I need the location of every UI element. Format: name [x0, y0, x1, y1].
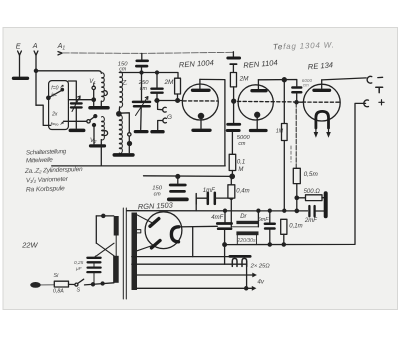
ground bar tube2 [251, 129, 267, 132]
wire mains to transformer [85, 283, 114, 285]
wire lower rail [52, 165, 226, 167]
choke Dr core bar [236, 221, 258, 224]
capacitors 0,25uF [87, 258, 100, 272]
resistor 0,5m [293, 168, 300, 183]
svg-text:1mF: 1mF [203, 188, 215, 194]
tube3 anode [314, 89, 330, 92]
svg-text:cm: cm [119, 66, 127, 72]
filament bus bar [230, 255, 250, 258]
svg-text:k=: k= [51, 93, 57, 99]
T symbol [376, 87, 383, 92]
wire top bus [119, 73, 178, 79]
coil V2 bottom wire [100, 140, 102, 166]
4V line lower [137, 287, 252, 289]
resistor 2M grid tube2 [230, 73, 236, 87]
variable capacitor C2 lead [141, 73, 143, 101]
resistor 2M grid leak tube1 [175, 78, 181, 94]
node A junction [34, 69, 37, 72]
rectifier anode 2 [137, 246, 152, 251]
wire block to varcap1 [68, 81, 76, 102]
svg-text:Mittelwelle: Mittelwelle [26, 157, 54, 165]
capacitor 6mF [269, 211, 271, 223]
svg-text:Si: Si [54, 273, 60, 279]
switch block [49, 81, 69, 130]
wire plus terminal down [225, 103, 366, 244]
ground bar coil [114, 153, 133, 157]
grid leak chain tube3 [295, 103, 297, 169]
capacitor 4mF [224, 211, 226, 223]
capacitor 5000cm [227, 124, 240, 130]
variable capacitor C2 [133, 102, 150, 106]
capacitor 150cm [136, 61, 147, 66]
filament shunt caps [232, 258, 237, 266]
4V line upper [137, 274, 252, 276]
svg-text:0,1m: 0,1m [289, 224, 302, 230]
svg-text:6mF: 6mF [258, 217, 269, 223]
svg-text:Ra Korbspule: Ra Korbspule [26, 185, 65, 193]
wire A to V1 coil [36, 71, 101, 73]
wire A elbow to switch [36, 105, 51, 125]
rectifier tube RGN1503 envelope [145, 212, 182, 249]
primary top feed [95, 216, 97, 243]
svg-text:f=0: f=0 [51, 86, 58, 92]
winding 220/30 [236, 231, 258, 235]
jack G upper [158, 101, 162, 110]
tube2 REN1104 envelope [238, 85, 273, 120]
tube2 anode [252, 89, 266, 92]
bias bar [324, 193, 328, 216]
svg-text:0,5m: 0,5m [304, 171, 319, 178]
svg-text:0,1: 0,1 [237, 159, 245, 165]
svg-text:4v: 4v [257, 279, 264, 286]
ground bar lower cap [169, 198, 187, 202]
capacitor 250cm lead [156, 73, 158, 88]
jack V1 [92, 86, 95, 89]
transformer core [123, 208, 126, 299]
svg-text:V₁/₂ Variometer: V₁/₂ Variometer [26, 176, 69, 184]
capacitor 1mF [208, 193, 215, 204]
svg-text:0,25: 0,25 [74, 260, 84, 266]
svg-text:A: A [32, 41, 38, 50]
secondary tap loop [137, 230, 141, 233]
tube1 REN1004 envelope [182, 84, 218, 120]
svg-text:Z.: Z. [121, 80, 128, 87]
variable capacitor C2 arrow [136, 97, 149, 116]
tap branch wire [119, 113, 129, 133]
resistor 0,1m [281, 219, 287, 234]
transformer secondary [132, 213, 138, 291]
ground bar jack G [152, 130, 163, 133]
svg-text:500.Ω: 500.Ω [304, 189, 321, 195]
svg-text:f=∞: f=∞ [51, 122, 59, 128]
ground bar tube1 [193, 129, 210, 132]
svg-text:Dr: Dr [240, 214, 247, 220]
coil Z2 [119, 115, 122, 154]
svg-text:2mF: 2mF [304, 218, 317, 224]
transformer primary [114, 216, 119, 236]
center tap wire [246, 264, 248, 288]
wire jack V1 to switch [69, 99, 93, 101]
filament arrows [315, 128, 317, 133]
rectifier cathode wire [178, 225, 218, 228]
switch lever [47, 96, 50, 99]
tube3 filament [316, 111, 329, 128]
svg-text:0,8A: 0,8A [53, 288, 64, 294]
resistor 500 ohm [297, 197, 306, 199]
ground E [14, 77, 28, 80]
svg-text:220/30s: 220/30s [236, 238, 256, 244]
svg-text:G: G [167, 114, 172, 121]
tube3 RE134 envelope [303, 84, 340, 121]
jack C of V1 [104, 91, 107, 96]
svg-text:2x: 2x [51, 112, 58, 118]
wire to jack V2 [64, 120, 87, 122]
svg-text:cm: cm [154, 192, 162, 198]
terminal A1 arrow [58, 52, 62, 55]
terminal E [18, 51, 22, 76]
capacitor 2mF [297, 210, 308, 212]
tube1 cathode [198, 113, 203, 118]
terminal plus [364, 100, 369, 107]
rectifier cathode arc [171, 227, 178, 242]
jack C of V2 [104, 131, 107, 136]
tube2 cathode [255, 112, 260, 117]
ground bar V2 [91, 144, 105, 147]
wire tube2 anode [258, 80, 296, 87]
jack V2 [87, 120, 90, 123]
coil V2 [102, 117, 105, 140]
capacitor 150cm lower lead [177, 176, 179, 183]
wire to minus terminal [322, 78, 367, 80]
capacitor 150cm lower [170, 185, 185, 191]
svg-text:V1: V1 [89, 79, 96, 85]
resistor 0,4m [228, 185, 235, 198]
svg-text:0,4m: 0,4m [236, 188, 249, 194]
capacitor 150cm top lead [141, 53, 143, 59]
wire varcap1 to ground [75, 109, 77, 129]
choke Dr winding wire [231, 226, 258, 228]
resistor 0,1M [229, 154, 236, 170]
capacitor 250cm [151, 89, 162, 93]
svg-text:4mF: 4mF [211, 215, 223, 221]
svg-text:2M: 2M [164, 79, 175, 86]
coil V1 bottom lead [100, 101, 102, 106]
B+ bus [127, 210, 297, 212]
svg-text:cm: cm [238, 141, 246, 147]
wire A1 coupling line [62, 52, 233, 53]
fuse Si 0,8A [54, 281, 68, 287]
terminal minus [367, 76, 372, 83]
coil V1 [102, 73, 105, 102]
wire plug to fuse [41, 284, 54, 286]
heater dash mark [290, 146, 292, 162]
variable capacitor C1 [71, 103, 82, 107]
svg-text:M: M [238, 167, 243, 173]
capacitor 150cm bottom lead [141, 67, 143, 72]
primary bottom feed [113, 256, 115, 283]
wire varcap2 to ground [140, 108, 143, 130]
variable capacitor C1 arrow [72, 96, 80, 112]
switch S [69, 283, 75, 285]
wire tube1 anode drop [200, 79, 225, 165]
capacitor 250cm bottom lead [156, 94, 158, 101]
ground bar V1 [90, 106, 108, 110]
mains plug [30, 282, 41, 288]
svg-text:E: E [16, 42, 21, 51]
svg-text:V2: V2 [90, 138, 97, 144]
coil Z [120, 72, 123, 107]
svg-text:22W: 22W [21, 240, 38, 249]
rectifier anode 1 [137, 215, 152, 223]
wire bias bus [144, 175, 233, 178]
resistor 1M anode load [282, 124, 288, 141]
svg-text:cm: cm [140, 86, 148, 92]
jack G lower [163, 118, 167, 123]
coil tap junction [117, 112, 121, 116]
chain A1 coupling cap [232, 52, 234, 56]
svg-text:2M: 2M [239, 76, 250, 83]
terminal A [34, 51, 38, 105]
mains switch bowtie [97, 243, 115, 256]
svg-text:1M: 1M [276, 128, 284, 134]
svg-text:2× 25Ω: 2× 25Ω [250, 264, 271, 270]
tap jack [128, 133, 131, 136]
grid wire tube1 [155, 100, 182, 102]
pencil handwriting block [24, 148, 83, 194]
ground bar under varcap1 [70, 129, 83, 133]
heater winding line [132, 256, 232, 258]
coupling capacitor [292, 88, 301, 93]
switch label arrows [61, 85, 64, 87]
tube1 grid dashes [183, 100, 218, 102]
svg-text:S: S [77, 287, 81, 293]
tube3 grid dashes [302, 101, 339, 103]
tube1 anode [193, 89, 210, 92]
svg-text:Schalterstellung: Schalterstellung [26, 148, 67, 156]
svg-text:μF: μF [75, 266, 83, 272]
tube2 grid dashes [238, 100, 294, 103]
svg-text:RGN 1503: RGN 1503 [138, 200, 174, 211]
wire anode feed drop [283, 80, 285, 211]
svg-text:cm: cm [303, 83, 309, 88]
